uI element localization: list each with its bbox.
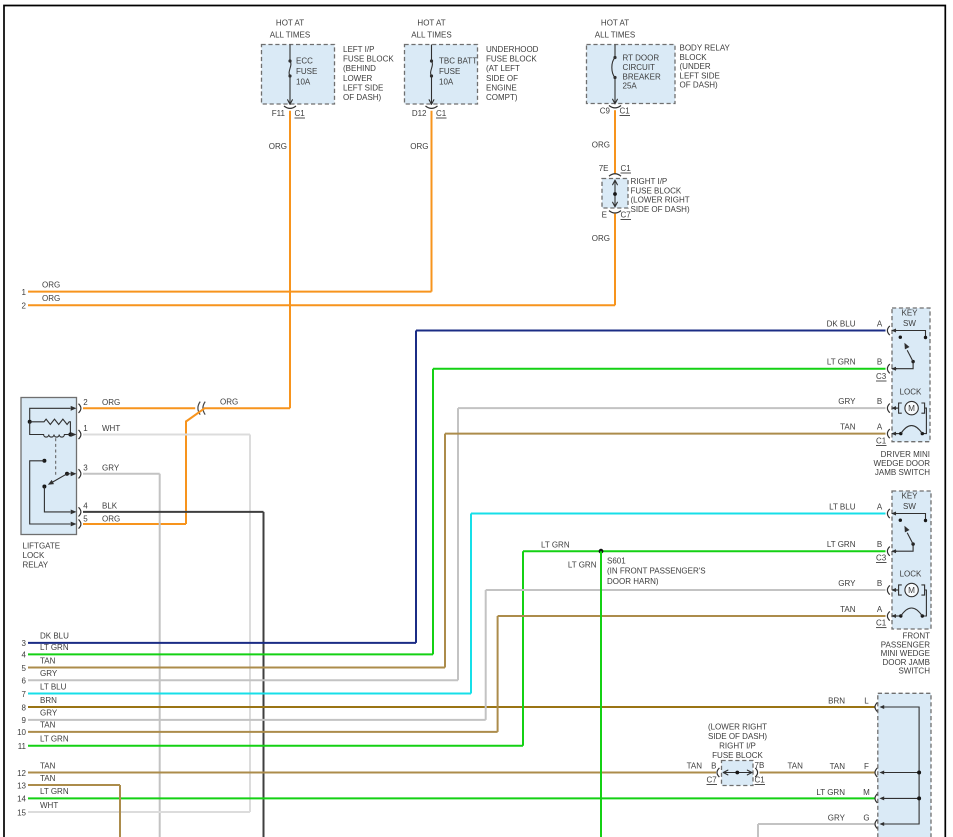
svg-text:OF DASH): OF DASH) — [343, 93, 382, 102]
svg-text:10: 10 — [17, 728, 26, 737]
svg-text:HOT AT: HOT AT — [601, 19, 629, 28]
svg-text:LT BLU: LT BLU — [40, 682, 67, 691]
svg-text:C3: C3 — [876, 554, 887, 563]
svg-text:GRY: GRY — [838, 579, 856, 588]
svg-text:C1: C1 — [876, 437, 887, 446]
svg-text:1: 1 — [22, 288, 27, 297]
svg-text:C1: C1 — [876, 619, 887, 628]
svg-text:CIRCUIT: CIRCUIT — [623, 63, 656, 72]
svg-text:FUSE: FUSE — [439, 67, 460, 76]
svg-text:A: A — [877, 319, 883, 328]
svg-text:A: A — [877, 605, 883, 614]
svg-text:E: E — [602, 211, 607, 220]
svg-text:MINI WEDGE: MINI WEDGE — [881, 649, 930, 658]
svg-text:TAN: TAN — [40, 774, 56, 783]
svg-text:1: 1 — [83, 424, 88, 433]
svg-text:LT GRN: LT GRN — [40, 643, 69, 652]
svg-text:(LOWER RIGHT: (LOWER RIGHT — [708, 722, 767, 731]
svg-text:LT GRN: LT GRN — [40, 735, 69, 744]
svg-text:(IN FRONT PASSENGER'S: (IN FRONT PASSENGER'S — [607, 567, 706, 576]
svg-text:11: 11 — [18, 742, 27, 751]
svg-text:FUSE BLOCK: FUSE BLOCK — [486, 55, 537, 64]
svg-text:PASSENGER: PASSENGER — [881, 640, 930, 649]
svg-text:5: 5 — [22, 664, 27, 673]
svg-text:TAN: TAN — [840, 422, 856, 431]
svg-text:L: L — [864, 697, 869, 706]
svg-text:14: 14 — [17, 795, 26, 804]
svg-text:12: 12 — [17, 769, 26, 778]
svg-text:ORG: ORG — [102, 398, 120, 407]
svg-text:WHT: WHT — [102, 424, 120, 433]
svg-text:GRY: GRY — [102, 464, 120, 473]
svg-text:10A: 10A — [439, 77, 454, 86]
svg-text:3: 3 — [83, 464, 88, 473]
svg-text:ORG: ORG — [42, 294, 60, 303]
svg-text:ALL TIMES: ALL TIMES — [411, 31, 451, 40]
svg-text:(BEHIND: (BEHIND — [343, 64, 376, 73]
svg-text:TAN: TAN — [840, 605, 856, 614]
svg-text:M: M — [908, 404, 915, 413]
svg-text:M: M — [863, 788, 870, 797]
svg-text:GRY: GRY — [40, 669, 58, 678]
svg-text:TAN: TAN — [687, 762, 703, 771]
svg-text:LEFT I/P: LEFT I/P — [343, 45, 374, 54]
svg-text:WEDGE DOOR: WEDGE DOOR — [874, 459, 931, 468]
svg-text:B: B — [877, 397, 882, 406]
svg-text:A: A — [877, 502, 883, 511]
svg-text:4: 4 — [83, 502, 88, 511]
svg-text:C1: C1 — [436, 109, 447, 118]
svg-text:WHT: WHT — [40, 801, 58, 810]
svg-text:ORG: ORG — [220, 397, 238, 406]
svg-text:F: F — [864, 762, 869, 771]
svg-text:GRY: GRY — [838, 397, 856, 406]
svg-text:10A: 10A — [296, 77, 311, 86]
svg-text:4: 4 — [22, 651, 27, 660]
svg-text:FUSE: FUSE — [296, 67, 317, 76]
svg-text:C1: C1 — [620, 107, 631, 116]
svg-text:7B: 7B — [755, 761, 765, 770]
svg-text:6: 6 — [22, 677, 27, 686]
svg-text:KEY: KEY — [901, 309, 918, 318]
svg-text:5: 5 — [83, 515, 88, 524]
svg-text:13: 13 — [17, 781, 26, 790]
svg-text:FUSE BLOCK: FUSE BLOCK — [712, 751, 763, 760]
svg-text:LEFT SIDE: LEFT SIDE — [680, 71, 720, 80]
svg-text:LEFT SIDE: LEFT SIDE — [343, 83, 383, 92]
svg-text:9: 9 — [22, 716, 27, 725]
svg-text:SW: SW — [903, 319, 916, 328]
svg-text:RIGHT I/P: RIGHT I/P — [631, 177, 668, 186]
svg-text:LIFTGATE: LIFTGATE — [23, 542, 61, 551]
svg-text:FUSE BLOCK: FUSE BLOCK — [343, 55, 394, 64]
svg-text:BLK: BLK — [102, 502, 118, 511]
svg-text:7: 7 — [22, 690, 27, 699]
svg-text:LOCK: LOCK — [900, 569, 922, 578]
svg-text:LT GRN: LT GRN — [827, 540, 856, 549]
svg-text:DOOR HARN): DOOR HARN) — [607, 577, 659, 586]
svg-text:15: 15 — [17, 808, 26, 817]
svg-text:TBC BATT: TBC BATT — [439, 57, 477, 66]
svg-text:ALL TIMES: ALL TIMES — [270, 31, 310, 40]
svg-text:TAN: TAN — [40, 656, 56, 665]
svg-text:LT GRN: LT GRN — [40, 787, 69, 796]
svg-text:2: 2 — [83, 398, 88, 407]
svg-text:ENGINE: ENGINE — [486, 83, 517, 92]
svg-text:LT GRN: LT GRN — [827, 358, 856, 367]
svg-text:TAN: TAN — [40, 721, 56, 730]
svg-text:FRONT: FRONT — [902, 632, 930, 641]
svg-text:S601: S601 — [607, 557, 626, 566]
svg-text:2: 2 — [22, 302, 27, 311]
svg-text:LOWER: LOWER — [343, 74, 373, 83]
svg-text:B: B — [877, 358, 882, 367]
svg-text:C3: C3 — [876, 372, 887, 381]
svg-text:BRN: BRN — [828, 697, 845, 706]
svg-text:A: A — [877, 422, 883, 431]
svg-text:ORG: ORG — [102, 515, 120, 524]
svg-text:F11: F11 — [272, 109, 286, 118]
svg-text:(AT LEFT: (AT LEFT — [486, 64, 520, 73]
svg-text:ORG: ORG — [592, 141, 610, 150]
svg-text:SIDE OF DASH): SIDE OF DASH) — [631, 205, 690, 214]
svg-text:BODY RELAY: BODY RELAY — [680, 44, 731, 53]
svg-text:UNDERHOOD: UNDERHOOD — [486, 45, 539, 54]
svg-text:SW: SW — [903, 502, 916, 511]
svg-text:ORG: ORG — [269, 142, 287, 151]
svg-text:C1: C1 — [295, 109, 306, 118]
svg-text:SIDE OF: SIDE OF — [486, 74, 518, 83]
svg-text:7E: 7E — [599, 164, 609, 173]
svg-text:ORG: ORG — [592, 234, 610, 243]
svg-text:ALL TIMES: ALL TIMES — [595, 31, 635, 40]
svg-text:(LOWER RIGHT: (LOWER RIGHT — [631, 196, 690, 205]
svg-text:HOT AT: HOT AT — [276, 19, 304, 28]
svg-text:BREAKER: BREAKER — [623, 72, 661, 81]
svg-text:B: B — [877, 540, 882, 549]
svg-text:JAMB SWITCH: JAMB SWITCH — [875, 468, 930, 477]
svg-text:KEY: KEY — [901, 492, 918, 501]
svg-text:RT DOOR: RT DOOR — [623, 54, 660, 63]
svg-text:LT GRN: LT GRN — [541, 541, 570, 550]
svg-text:ECC: ECC — [296, 57, 313, 66]
svg-text:C7: C7 — [707, 776, 718, 785]
svg-text:TAN: TAN — [788, 762, 804, 771]
svg-text:B: B — [711, 762, 716, 771]
svg-text:C1: C1 — [621, 164, 632, 173]
svg-text:LT BLU: LT BLU — [829, 502, 856, 511]
svg-text:LOCK: LOCK — [23, 551, 45, 560]
svg-text:OF DASH): OF DASH) — [680, 81, 719, 90]
svg-text:HOT AT: HOT AT — [417, 19, 445, 28]
svg-text:LT GRN: LT GRN — [568, 561, 597, 570]
svg-text:D12: D12 — [412, 109, 427, 118]
svg-text:RIGHT I/P: RIGHT I/P — [719, 741, 756, 750]
svg-text:GRY: GRY — [828, 814, 846, 823]
svg-text:DRIVER MINI: DRIVER MINI — [881, 450, 930, 459]
svg-text:M: M — [908, 586, 915, 595]
svg-text:DK BLU: DK BLU — [40, 632, 69, 641]
svg-text:BLOCK: BLOCK — [680, 53, 708, 62]
svg-text:DOOR JAMB: DOOR JAMB — [882, 658, 930, 667]
svg-text:8: 8 — [22, 703, 27, 712]
svg-text:C9: C9 — [600, 107, 611, 116]
svg-text:TAN: TAN — [40, 761, 56, 770]
svg-text:BRN: BRN — [40, 696, 57, 705]
svg-text:ORG: ORG — [42, 280, 60, 289]
svg-text:25A: 25A — [623, 82, 638, 91]
svg-text:FUSE BLOCK: FUSE BLOCK — [631, 186, 682, 195]
svg-text:SIDE OF DASH): SIDE OF DASH) — [708, 732, 767, 741]
svg-text:LOCK: LOCK — [900, 387, 922, 396]
svg-text:ORG: ORG — [410, 142, 428, 151]
svg-text:B: B — [877, 579, 882, 588]
svg-text:3: 3 — [22, 639, 27, 648]
svg-text:SWITCH: SWITCH — [898, 667, 930, 676]
svg-text:GRY: GRY — [40, 709, 58, 718]
svg-text:LT GRN: LT GRN — [816, 788, 845, 797]
svg-text:C1: C1 — [755, 776, 766, 785]
svg-text:(UNDER: (UNDER — [680, 62, 711, 71]
svg-text:DK BLU: DK BLU — [827, 319, 856, 328]
svg-text:RELAY: RELAY — [23, 560, 49, 569]
svg-text:G: G — [863, 814, 869, 823]
svg-text:TAN: TAN — [830, 762, 846, 771]
svg-text:COMPT): COMPT) — [486, 93, 518, 102]
